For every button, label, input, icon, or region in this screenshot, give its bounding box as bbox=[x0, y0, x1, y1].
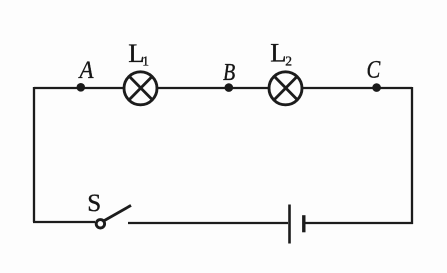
wire right vertical bbox=[411, 87, 413, 224]
label S bbox=[87, 190, 101, 217]
node A bbox=[77, 83, 86, 92]
label L2 bbox=[270, 38, 292, 69]
label C bbox=[367, 54, 382, 83]
label L1 bbox=[128, 38, 149, 68]
switch S bbox=[96, 205, 131, 228]
wire top-middle segment (L1 to L2) bbox=[157, 87, 269, 89]
lamp L2 bbox=[269, 72, 302, 105]
svg-text:L: L bbox=[270, 38, 286, 68]
wire top-left segment (corner A to lamp L1) bbox=[34, 87, 124, 89]
svg-text:2: 2 bbox=[285, 53, 292, 68]
wire top-right segment (L2 to corner) bbox=[302, 87, 412, 89]
wire bottom-left segment (corner to switch) bbox=[33, 221, 95, 223]
wire battery-to-right-corner segment bbox=[304, 222, 413, 224]
wire switch-to-battery segment bbox=[128, 222, 288, 224]
svg-text:B: B bbox=[223, 59, 235, 86]
node B bbox=[225, 83, 234, 92]
battery bbox=[290, 205, 304, 244]
lamp L1 bbox=[124, 72, 157, 105]
label B bbox=[223, 59, 235, 86]
label A bbox=[78, 55, 94, 84]
svg-text:A: A bbox=[78, 55, 94, 84]
svg-text:S: S bbox=[87, 190, 101, 217]
svg-text:1: 1 bbox=[142, 53, 149, 68]
svg-text:C: C bbox=[367, 54, 382, 83]
wire left vertical bbox=[33, 87, 35, 222]
node C bbox=[372, 83, 381, 92]
